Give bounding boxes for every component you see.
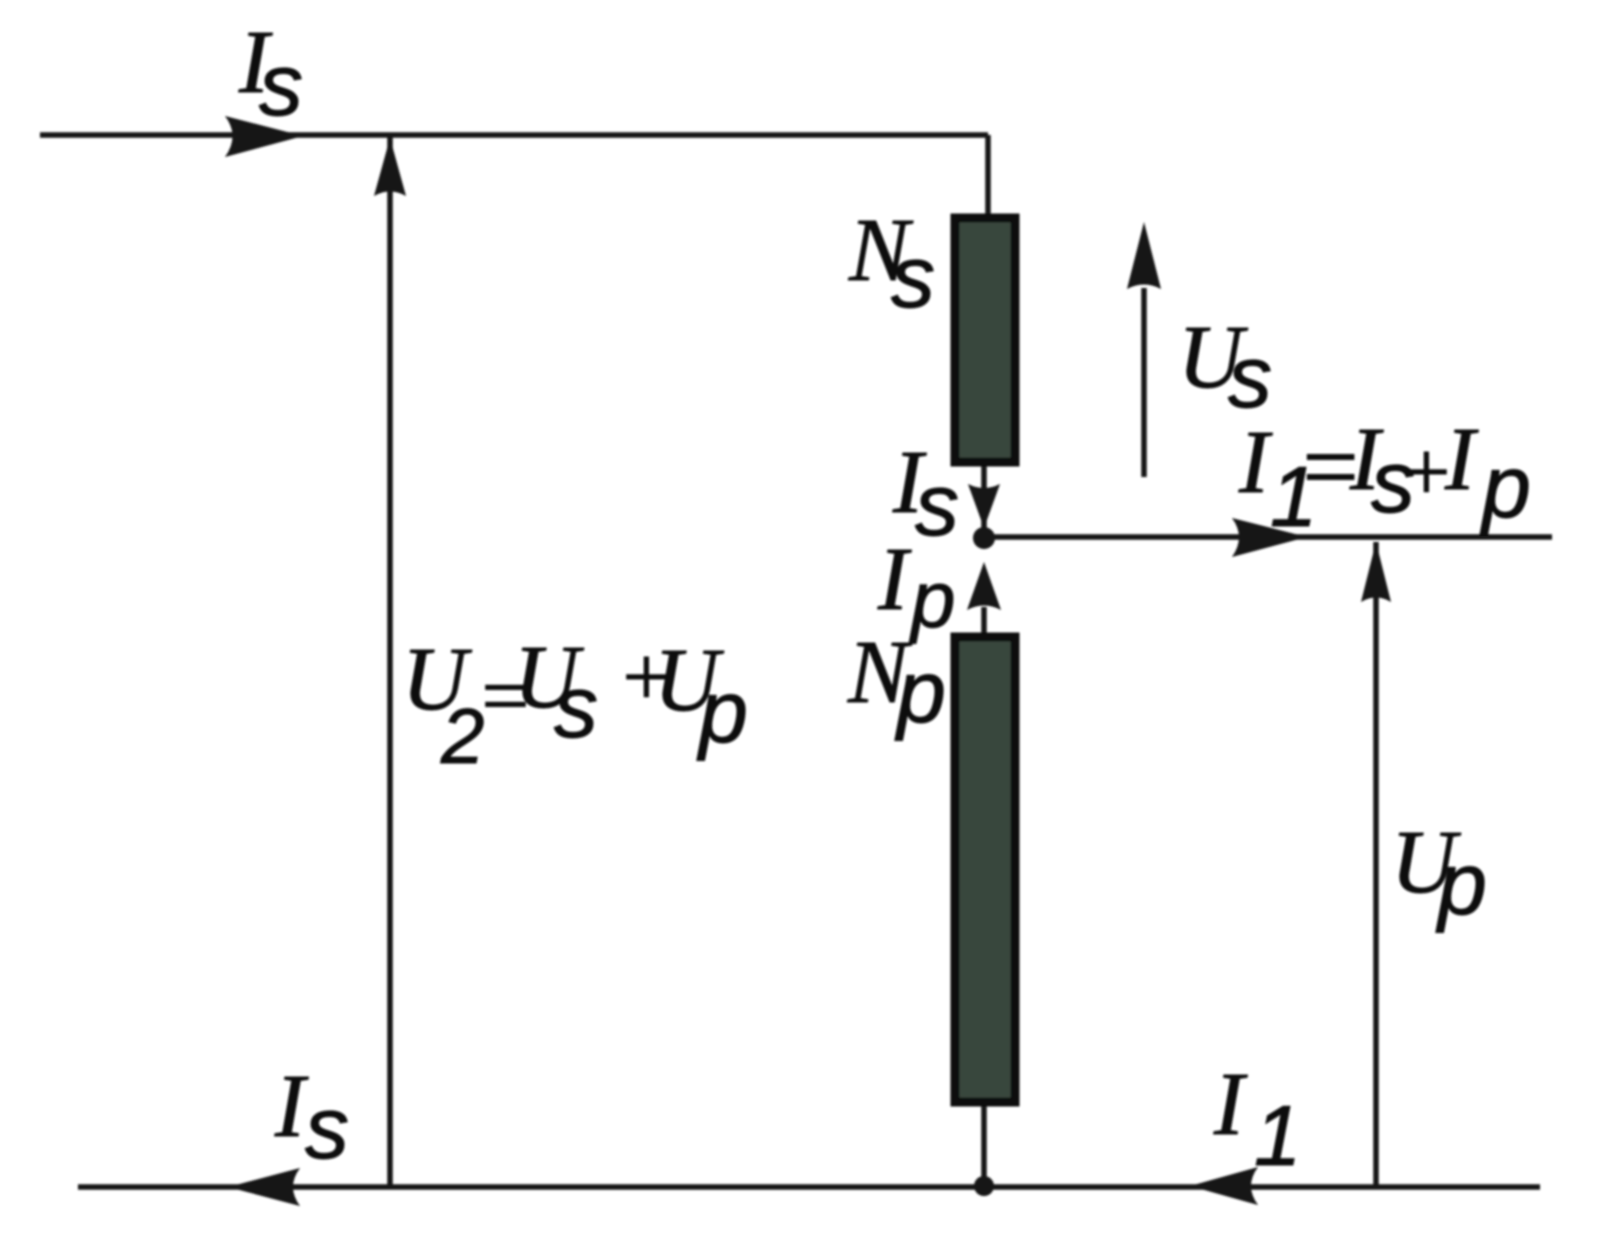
svg-text:I: I bbox=[1213, 1055, 1248, 1154]
svg-text:s: s bbox=[915, 455, 959, 554]
svg-text:p: p bbox=[1479, 437, 1531, 536]
svg-text:p: p bbox=[909, 555, 956, 644]
svg-text:I: I bbox=[274, 1057, 309, 1156]
svg-text:p: p bbox=[1435, 834, 1487, 933]
svg-text:s: s bbox=[1228, 327, 1272, 426]
svg-text:p: p bbox=[894, 642, 946, 741]
svg-text:I: I bbox=[877, 530, 912, 629]
svg-text:s: s bbox=[891, 227, 935, 326]
svg-text:I: I bbox=[1238, 413, 1273, 512]
svg-text:1: 1 bbox=[1254, 1089, 1301, 1184]
svg-text:p: p bbox=[696, 662, 748, 761]
svg-text:s: s bbox=[259, 35, 303, 134]
svg-text:s: s bbox=[305, 1078, 349, 1177]
svg-text:I: I bbox=[1444, 410, 1479, 509]
svg-text:s: s bbox=[554, 657, 598, 756]
